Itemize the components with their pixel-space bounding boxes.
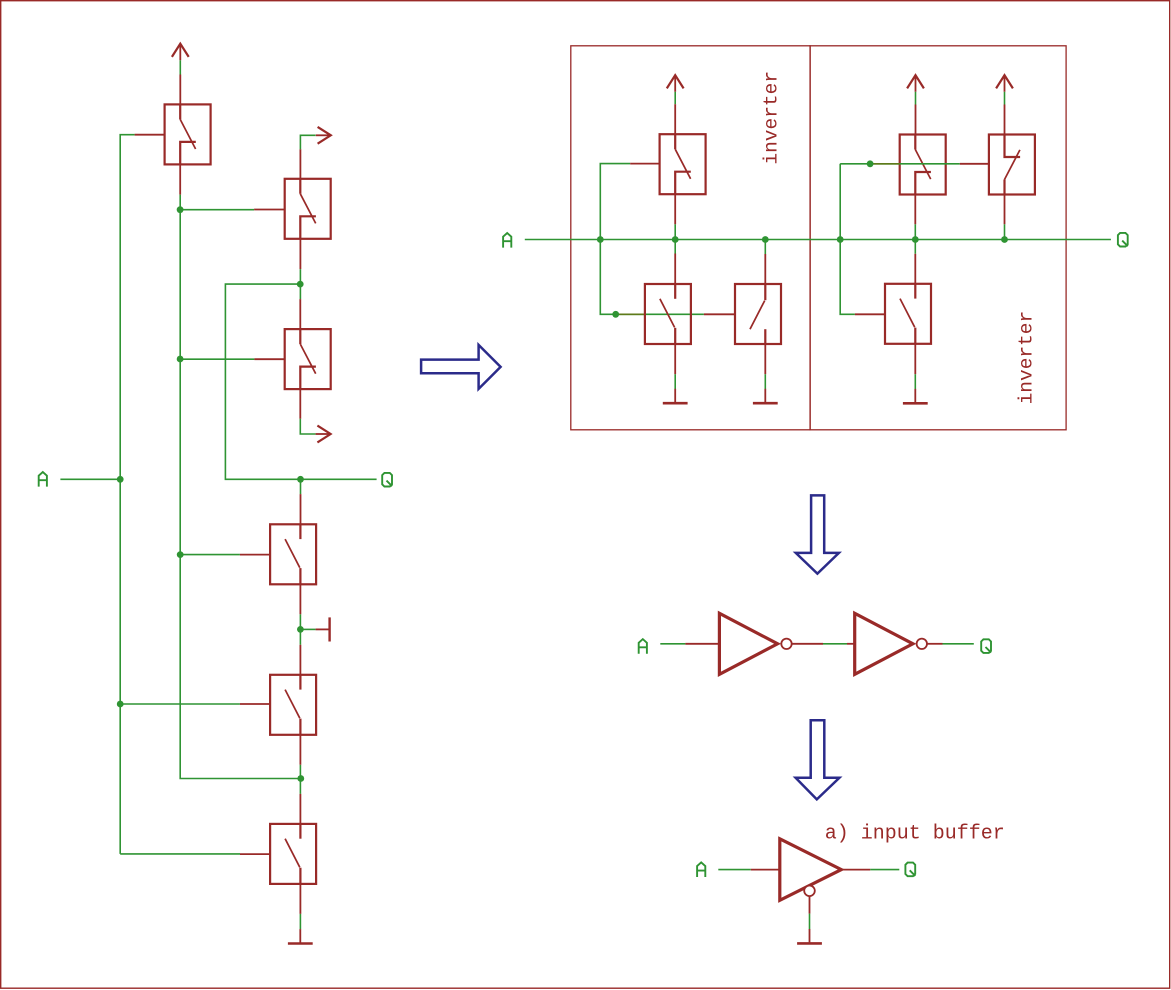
junction n3 bbox=[297, 626, 304, 633]
wire VDD to T1 source bbox=[179, 60, 181, 74]
transistor T2 PMOS bbox=[285, 179, 331, 239]
inverter 2 triangle with bubble bbox=[855, 613, 927, 674]
pin N1 gate overlap bbox=[616, 313, 646, 315]
label A bbox=[39, 472, 47, 487]
transistor P2 PMOS bbox=[900, 135, 946, 195]
junction A trunk bbox=[117, 476, 124, 483]
pin P2 source bbox=[915, 105, 917, 135]
wire P1 drain to A-line bbox=[674, 224, 676, 253]
wire supply to P3 bbox=[1004, 92, 1006, 105]
substrate tap T-bar bbox=[316, 628, 329, 630]
pin buffer output bbox=[841, 869, 870, 871]
wire P3 drain to A-line bbox=[1004, 224, 1006, 239]
supply arrow above P2 bbox=[907, 75, 924, 92]
wire supply to P2 bbox=[915, 92, 917, 105]
pin T4 gate bbox=[240, 554, 270, 556]
wire A trunk to T5 gate bbox=[120, 703, 240, 705]
buffer triangle bbox=[780, 839, 842, 901]
transistor N3 NMOS bbox=[885, 284, 931, 344]
pin P1 gate bbox=[630, 163, 659, 165]
wire A to inverter 1 bbox=[660, 643, 685, 645]
pin P3 drain bbox=[1004, 195, 1006, 225]
wire n1 to T2 gate bbox=[180, 209, 254, 211]
transistor T5 NMOS bbox=[270, 675, 316, 735]
wire inverter 1 to inverter 2 bbox=[823, 643, 847, 645]
pin N2 gate bbox=[704, 313, 735, 315]
junction P1 drain A-line bbox=[672, 236, 679, 243]
wire T6 source to ground bbox=[299, 914, 301, 929]
wire buffer output to Q bbox=[870, 869, 899, 871]
wire A trunk to T6 gate bbox=[120, 853, 240, 855]
wire A to trunk bbox=[60, 478, 120, 480]
junction n1-T3gate bbox=[177, 356, 184, 363]
wire N1 source to ground bbox=[674, 374, 676, 389]
blue arrow pointing down upper bbox=[796, 495, 839, 573]
pin T2 gate bbox=[254, 209, 284, 211]
supply arrow above P3 bbox=[996, 75, 1013, 92]
wire A vertical trunk x=120 bbox=[120, 135, 134, 854]
junction Q column bbox=[297, 476, 304, 483]
pin T1 gate bbox=[135, 134, 165, 136]
pin P1 source bbox=[674, 104, 676, 134]
ground symbol buffer bbox=[797, 929, 822, 943]
wire T3 drain to supply bbox=[300, 419, 315, 434]
wire n1 to T3 gate bbox=[180, 358, 254, 360]
wire enable to ground bbox=[809, 914, 811, 930]
transistor T6 NMOS bbox=[270, 824, 316, 884]
pin buffer input bbox=[751, 869, 780, 871]
wire P2 drain to A-line bbox=[914, 224, 916, 239]
pin inverter 2 input bbox=[847, 643, 855, 645]
pin T5 source bbox=[299, 735, 301, 765]
label Q bbox=[382, 473, 392, 487]
wire node n2 T2 drain to T3 source and Q loop bbox=[225, 269, 376, 479]
pin N1 drain bbox=[674, 254, 676, 285]
wire A-line to N2 drain bbox=[764, 240, 766, 255]
pin P1 drain bbox=[674, 194, 676, 224]
ground symbol left circuit bbox=[288, 929, 313, 943]
pin buffer enable bbox=[809, 896, 811, 914]
junction N1 gate pin end bbox=[612, 311, 619, 318]
label Q buffer bbox=[905, 863, 915, 877]
junction P3 drain A-line bbox=[1001, 236, 1008, 243]
pin T3 source bbox=[299, 299, 301, 329]
junction n1-T4gate bbox=[177, 551, 184, 558]
pin T3 drain bbox=[299, 389, 301, 419]
wire T5 source to n1 return bbox=[299, 765, 301, 794]
supply arrow right of T2 bbox=[316, 127, 331, 144]
transistor N1 NMOS bbox=[645, 284, 691, 344]
label A input bbox=[503, 233, 511, 248]
pin inverter 1 input bbox=[685, 643, 719, 645]
wire T2 source to supply bbox=[300, 135, 315, 149]
wire N2 source to ground bbox=[764, 374, 766, 389]
wire n1 to T4 gate bbox=[180, 554, 240, 556]
wire N3 source to ground bbox=[914, 374, 916, 389]
pin T6 drain bbox=[299, 794, 301, 824]
blue arrow pointing right bbox=[421, 345, 501, 389]
frame inverter cell 1 bbox=[571, 46, 810, 430]
pin T6 gate bbox=[240, 853, 270, 855]
frame inverter cell 2 bbox=[810, 46, 1066, 430]
svg-text:inverter: inverter bbox=[761, 71, 783, 165]
junction gate route A-line 2 bbox=[837, 236, 844, 243]
junction n1-T2gate bbox=[177, 206, 184, 213]
label A inverter chain bbox=[639, 639, 647, 654]
svg-text:a) input buffer: a) input buffer bbox=[825, 823, 1005, 846]
wire Q node down to T4 bbox=[300, 479, 302, 494]
pin T2 source bbox=[299, 149, 301, 179]
transistor T3 PMOS bbox=[285, 329, 331, 389]
wire n3 to substrate tap bbox=[300, 628, 315, 630]
transistor N2 NMOS flipped bbox=[735, 284, 781, 344]
wire node n1 vertical trunk x=180 bbox=[180, 195, 301, 779]
wire A to buffer bbox=[718, 869, 751, 871]
wire gate route inverter2 bbox=[840, 164, 960, 314]
transistor P1 PMOS bbox=[660, 134, 706, 194]
supply arrow VDD above T1 bbox=[172, 44, 189, 61]
wire gate route inverter1 bbox=[600, 164, 704, 315]
label A buffer bbox=[697, 862, 705, 877]
wire inverter 2 to Q bbox=[943, 643, 974, 645]
pin T5 drain bbox=[299, 645, 301, 675]
pin T5 gate bbox=[240, 703, 270, 705]
pin P3 source bbox=[1004, 105, 1006, 135]
pin T1 drain bbox=[179, 164, 181, 194]
buffer enable bubble bbox=[804, 886, 815, 897]
blue arrow pointing down lower bbox=[796, 720, 840, 799]
pin N1 source bbox=[674, 344, 676, 374]
pin N2 source bbox=[764, 344, 766, 374]
pin inverter 1 output bbox=[792, 643, 823, 645]
pin P2 gate overlap bbox=[870, 163, 900, 165]
supply arrow above P1 bbox=[667, 75, 684, 92]
svg-text:inverter: inverter bbox=[1015, 311, 1037, 405]
pin T2 drain bbox=[299, 239, 301, 269]
wire A-line to N3 drain bbox=[914, 240, 916, 254]
inverter 1 triangle with bubble bbox=[719, 613, 791, 674]
transistor P3 PMOS flipped bbox=[989, 135, 1035, 195]
transistor T4 NMOS bbox=[270, 524, 316, 584]
pin P3 gate bbox=[960, 163, 990, 165]
wire T4 source to T5 drain node n3 bbox=[299, 614, 301, 645]
pin T3 gate bbox=[254, 358, 284, 360]
pin N3 source bbox=[914, 344, 916, 374]
net A-Q horizontal through cells bbox=[525, 239, 1111, 241]
label Q inverter chain bbox=[981, 639, 991, 653]
junction gate route A-line 1 bbox=[597, 236, 604, 243]
pin T1 source bbox=[179, 75, 181, 105]
ground symbol N3 bbox=[903, 389, 928, 403]
pin T4 drain bbox=[300, 494, 302, 524]
pin N3 gate bbox=[855, 313, 885, 315]
wire supply to P1 bbox=[674, 92, 676, 104]
junction N2 drain A-line bbox=[762, 236, 769, 243]
pin N3 drain bbox=[914, 254, 916, 284]
junction A-T5gate bbox=[117, 701, 124, 708]
pin T4 source bbox=[299, 584, 301, 614]
junction P2 drain A-line bbox=[912, 236, 919, 243]
label Q output bbox=[1118, 233, 1128, 247]
junction n1 return bbox=[297, 775, 304, 782]
junction P2 gate pin end bbox=[867, 160, 874, 167]
ground symbol N1 bbox=[663, 389, 688, 403]
pin inverter 2 output bbox=[927, 643, 942, 645]
pin N2 drain bbox=[764, 254, 766, 284]
transistor T1 PMOS bbox=[165, 104, 211, 164]
supply arrow below T3 bbox=[316, 426, 331, 443]
pin T6 source bbox=[299, 884, 301, 914]
ground symbol N2 bbox=[753, 389, 778, 403]
junction n2 bbox=[297, 281, 304, 288]
pin P2 drain bbox=[914, 195, 916, 225]
